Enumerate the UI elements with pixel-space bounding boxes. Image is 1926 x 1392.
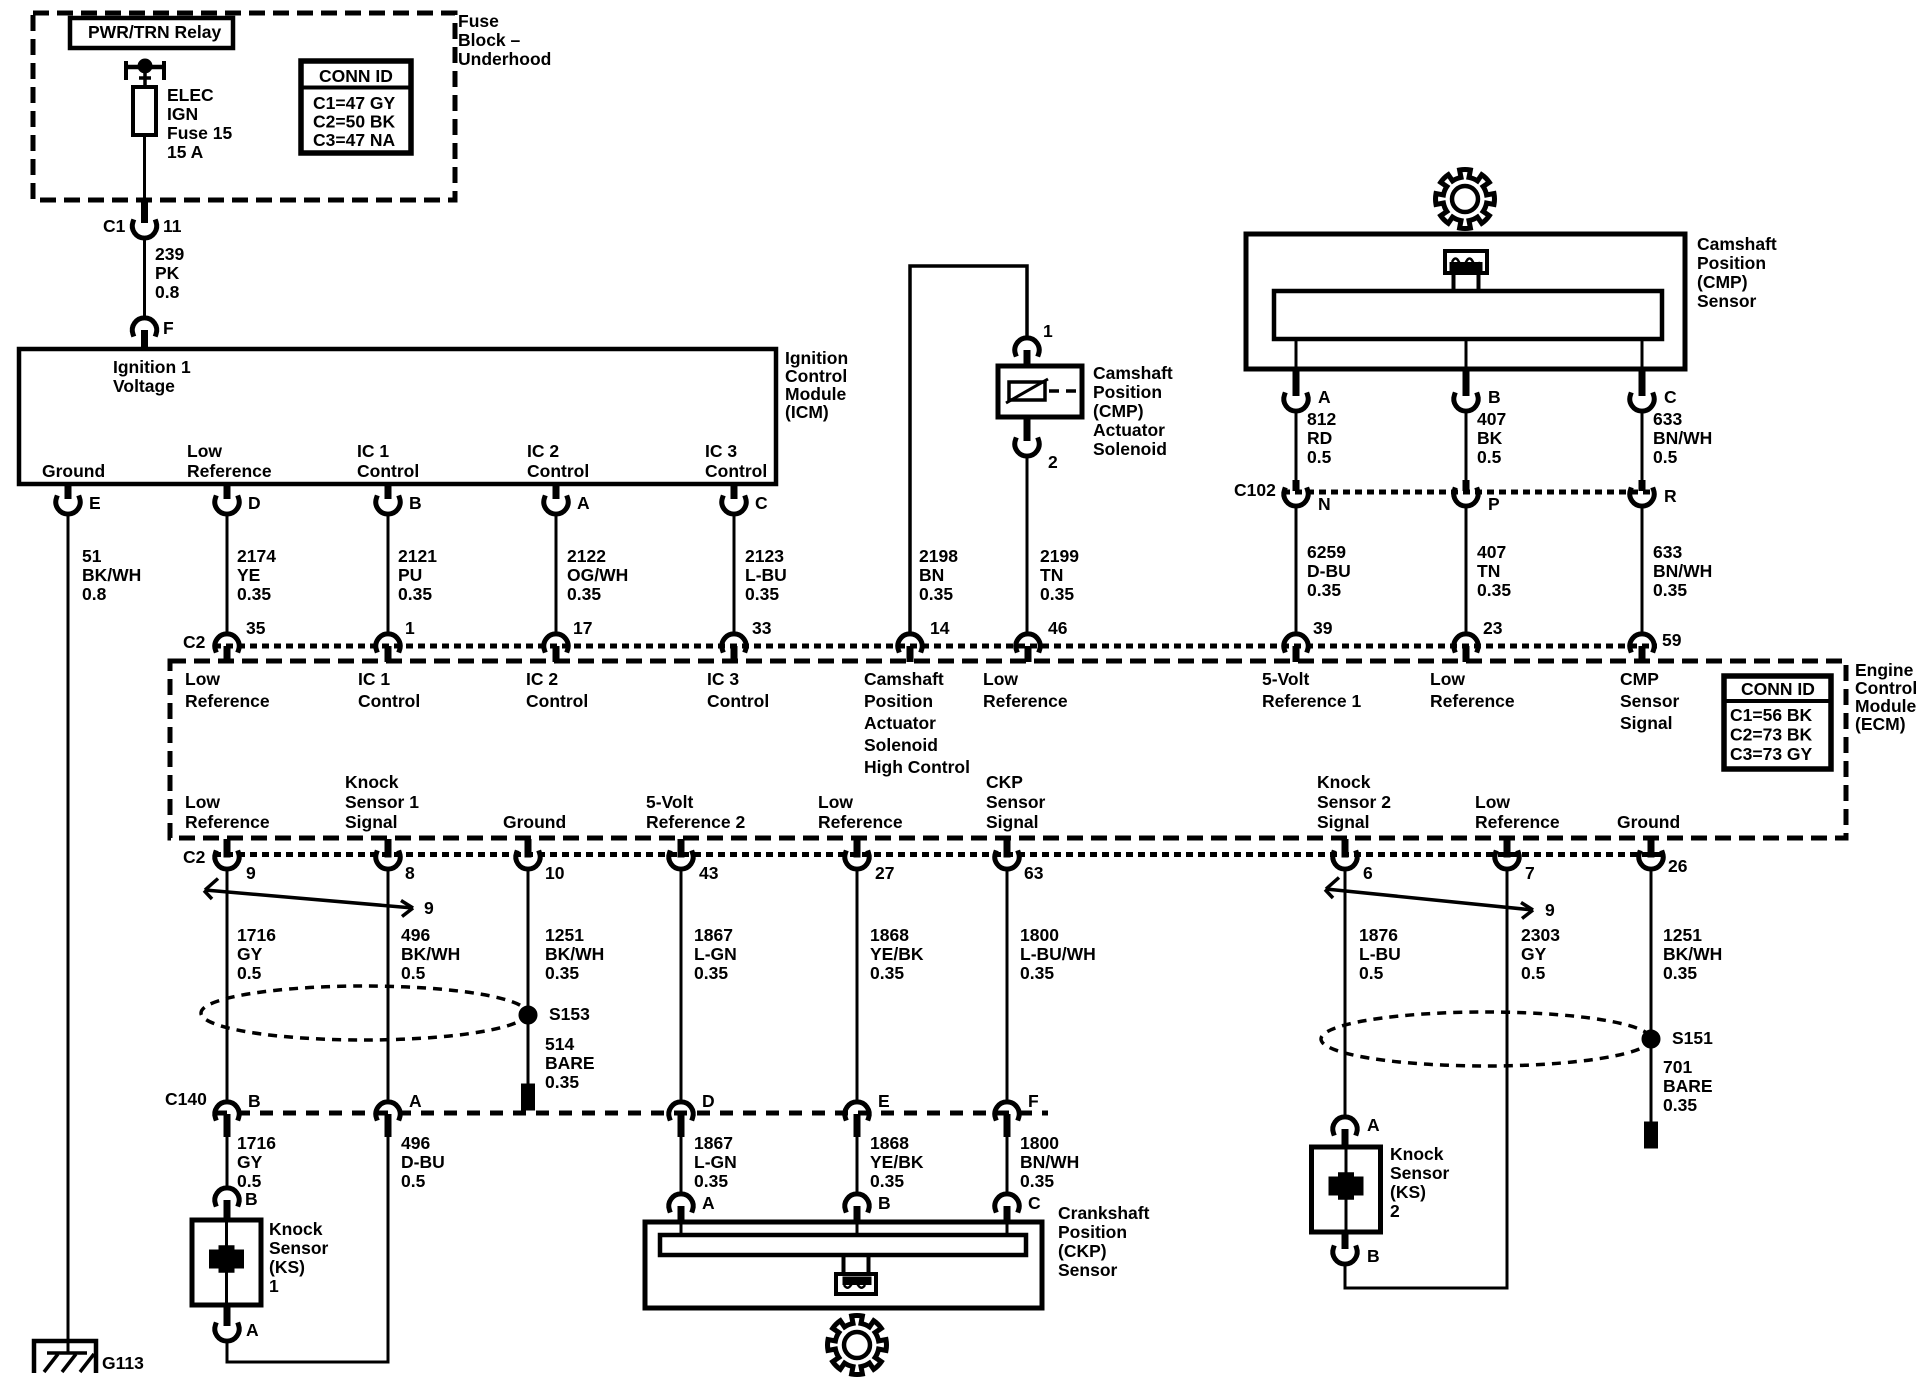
solenoid coil symbol — [1006, 379, 1078, 403]
label ECM Ground b2 — [1617, 812, 1680, 832]
shield ellipse left — [201, 986, 527, 1040]
twisted pair arrow right (to pin 9) — [1325, 878, 1555, 920]
svg-text:BN/WH: BN/WH — [1653, 428, 1712, 448]
svg-text:Signal: Signal — [1317, 812, 1370, 832]
svg-text:YE/BK: YE/BK — [870, 944, 924, 964]
svg-text:Reference: Reference — [187, 461, 272, 481]
svg-text:N: N — [1318, 494, 1331, 514]
label ECM CMP Actuator Solenoid High Control — [864, 669, 970, 777]
C2 upper pin 14 — [898, 618, 950, 662]
label ECM Low Reference b3 — [1475, 792, 1560, 832]
label ECM Low Reference 1 — [185, 669, 270, 711]
svg-text:CMP: CMP — [1620, 669, 1659, 689]
svg-text:PK: PK — [155, 263, 180, 283]
svg-text:GY: GY — [237, 1152, 263, 1172]
svg-text:0.5: 0.5 — [1653, 447, 1678, 467]
svg-text:51: 51 — [82, 546, 102, 566]
wire 812 RD 0.5 — [1296, 409, 1336, 480]
connector C102 pin N — [1284, 480, 1331, 514]
svg-text:Control: Control — [358, 691, 420, 711]
svg-text:ELEC: ELEC — [167, 85, 214, 105]
CMP pin A — [1284, 369, 1331, 411]
svg-text:Signal: Signal — [986, 812, 1039, 832]
svg-text:A: A — [409, 1091, 422, 1111]
svg-text:IC 1: IC 1 — [358, 669, 390, 689]
svg-text:812: 812 — [1307, 409, 1336, 429]
wire inside CKP box — [856, 1222, 859, 1235]
shield ellipse right — [1321, 1012, 1651, 1066]
wire 2199 TN 0.35 — [1027, 457, 1079, 634]
svg-text:2: 2 — [1390, 1201, 1400, 1221]
C2 lower pin 43 — [669, 839, 719, 883]
svg-text:2303: 2303 — [1521, 925, 1560, 945]
svg-text:Control: Control — [357, 461, 419, 481]
sensor Knock Sensor KS 2 box — [1312, 1147, 1381, 1232]
label ICM IC 1 Control — [357, 441, 419, 481]
svg-text:Control: Control — [705, 461, 767, 481]
svg-text:10: 10 — [545, 863, 565, 883]
connector C140 line — [165, 1089, 1048, 1113]
svg-text:F: F — [163, 318, 174, 338]
wire 51 BK/WH 0.8 — [68, 515, 141, 1354]
svg-text:0.35: 0.35 — [1663, 1095, 1697, 1115]
svg-text:0.8: 0.8 — [82, 584, 107, 604]
wire 496 BK/WH 0.5 — [388, 870, 460, 1102]
sensor CKP inner element — [660, 1235, 1026, 1255]
svg-text:B: B — [245, 1189, 258, 1209]
CKP pin C — [995, 1193, 1041, 1222]
C2 upper pin 39 — [1284, 618, 1333, 662]
svg-text:Sensor: Sensor — [1058, 1260, 1118, 1280]
svg-text:D-BU: D-BU — [1307, 561, 1351, 581]
C2 lower pin 63 — [995, 839, 1044, 883]
svg-text:Reference: Reference — [818, 812, 903, 832]
label ECM IC 3 Control — [707, 669, 769, 711]
svg-text:YE: YE — [237, 565, 260, 585]
svg-text:BARE: BARE — [1663, 1076, 1713, 1096]
C2 lower pin 7 — [1495, 839, 1535, 883]
svg-text:IC 2: IC 2 — [527, 441, 559, 461]
svg-text:Module: Module — [1855, 696, 1917, 716]
relay contact symbol — [124, 61, 166, 87]
C2 upper pin 1 — [376, 618, 415, 662]
svg-text:A: A — [1367, 1115, 1380, 1135]
svg-text:0.35: 0.35 — [694, 1171, 728, 1191]
wire inside CMP box — [1465, 339, 1468, 369]
svg-text:0.8: 0.8 — [155, 282, 180, 302]
svg-text:Position: Position — [1093, 382, 1162, 402]
conn id table (fuse block) — [301, 61, 411, 153]
C2 lower pin 6 — [1333, 839, 1373, 883]
svg-text:1: 1 — [269, 1276, 279, 1296]
svg-text:Actuator: Actuator — [1093, 420, 1165, 440]
svg-text:C2: C2 — [183, 632, 206, 652]
svg-text:BARE: BARE — [545, 1053, 595, 1073]
svg-text:1716: 1716 — [237, 925, 276, 945]
svg-text:E: E — [878, 1091, 890, 1111]
CMP pin B — [1454, 369, 1501, 411]
svg-text:(CMP): (CMP) — [1697, 272, 1748, 292]
svg-text:Sensor 2: Sensor 2 — [1317, 792, 1391, 812]
svg-text:2121: 2121 — [398, 546, 437, 566]
svg-text:IGN: IGN — [167, 104, 198, 124]
svg-text:9: 9 — [246, 863, 256, 883]
svg-text:Low: Low — [1475, 792, 1510, 812]
solenoid pin 1 — [1015, 321, 1053, 366]
svg-text:L-BU: L-BU — [1359, 944, 1401, 964]
label ECM Ground b1 — [503, 812, 566, 832]
C2 upper pin 46 — [1016, 618, 1068, 662]
svg-text:D: D — [248, 493, 261, 513]
svg-text:Knock: Knock — [269, 1219, 323, 1239]
svg-text:0.35: 0.35 — [919, 584, 953, 604]
C2 upper pin 35 — [215, 618, 266, 662]
svg-text:Reference: Reference — [983, 691, 1068, 711]
svg-text:5-Volt: 5-Volt — [1262, 669, 1309, 689]
splice S153 — [521, 1004, 590, 1024]
label ELEC IGN Fuse 15 15 A — [167, 85, 232, 162]
svg-text:0.5: 0.5 — [1359, 963, 1384, 983]
connector C1 pin 11 — [103, 200, 182, 238]
svg-text:B: B — [248, 1091, 261, 1111]
wire 407 TN 0.35 — [1466, 507, 1511, 634]
svg-text:Fuse 15: Fuse 15 — [167, 123, 232, 143]
connector C2 line (ECM upper) — [183, 632, 1657, 652]
svg-text:Control: Control — [526, 691, 588, 711]
sensor CKP outer box — [645, 1222, 1042, 1308]
connector C102 pin P — [1454, 480, 1500, 514]
KS2 pin A — [1333, 1115, 1380, 1147]
svg-text:23: 23 — [1483, 618, 1503, 638]
svg-text:0.35: 0.35 — [1020, 963, 1054, 983]
svg-text:(ICM): (ICM) — [785, 402, 829, 422]
svg-text:Sensor: Sensor — [1390, 1163, 1450, 1183]
svg-text:8: 8 — [405, 863, 415, 883]
wire 6259 D-BU 0.35 — [1296, 507, 1351, 634]
sensor Knock Sensor KS 1 box — [192, 1220, 261, 1305]
label Knock Sensor (KS) 2 — [1390, 1144, 1450, 1221]
svg-text:A: A — [246, 1320, 259, 1340]
svg-text:Reference: Reference — [185, 812, 270, 832]
svg-text:Signal: Signal — [345, 812, 398, 832]
svg-text:E: E — [89, 493, 101, 513]
svg-text:OG/WH: OG/WH — [567, 565, 628, 585]
svg-text:39: 39 — [1313, 618, 1333, 638]
fuse ELEC IGN Fuse 15 — [133, 87, 156, 200]
svg-text:Actuator: Actuator — [864, 713, 936, 733]
svg-text:A: A — [577, 493, 590, 513]
svg-text:Solenoid: Solenoid — [1093, 439, 1167, 459]
svg-text:33: 33 — [752, 618, 772, 638]
svg-text:Reference: Reference — [1475, 812, 1560, 832]
svg-text:D: D — [702, 1091, 715, 1111]
svg-text:RD: RD — [1307, 428, 1332, 448]
svg-text:C2: C2 — [183, 847, 206, 867]
label ECM Knock Sensor 1 Signal — [345, 772, 419, 832]
svg-text:1716: 1716 — [237, 1133, 276, 1153]
svg-text:Reference 1: Reference 1 — [1262, 691, 1361, 711]
CKP pin B — [845, 1193, 891, 1222]
svg-text:C1=47 GY: C1=47 GY — [313, 93, 396, 113]
svg-text:633: 633 — [1653, 542, 1682, 562]
svg-text:Underhood: Underhood — [458, 49, 551, 69]
svg-text:407: 407 — [1477, 409, 1506, 429]
svg-text:1876: 1876 — [1359, 925, 1398, 945]
gear icon (camshaft) — [1436, 170, 1495, 229]
KS2 pin B — [1333, 1232, 1380, 1266]
svg-text:GY: GY — [237, 944, 263, 964]
svg-text:1251: 1251 — [545, 925, 584, 945]
svg-text:1800: 1800 — [1020, 1133, 1059, 1153]
svg-text:P: P — [1488, 494, 1500, 514]
svg-text:Low: Low — [185, 669, 220, 689]
svg-text:0.35: 0.35 — [745, 584, 779, 604]
svg-text:BN/WH: BN/WH — [1020, 1152, 1079, 1172]
label ICM IC 3 Control — [705, 441, 767, 481]
svg-text:0.5: 0.5 — [1477, 447, 1502, 467]
wire 1716 GY 0.5 upper — [227, 870, 276, 1102]
svg-text:407: 407 — [1477, 542, 1506, 562]
svg-text:496: 496 — [401, 1133, 430, 1153]
svg-text:59: 59 — [1662, 630, 1682, 650]
svg-text:Ignition: Ignition — [785, 348, 848, 368]
svg-text:Engine: Engine — [1855, 660, 1914, 680]
svg-text:1: 1 — [405, 618, 415, 638]
svg-text:C: C — [755, 493, 768, 513]
KS1 pin B — [215, 1188, 258, 1220]
svg-text:Signal: Signal — [1620, 713, 1673, 733]
C2 upper pin 33 — [722, 618, 772, 662]
connector C140 pin D — [669, 1091, 715, 1137]
label Camshaft Position (CMP) Actuator Solenoid — [1093, 363, 1173, 459]
wire 2122 OG/WH 0.35 — [556, 515, 628, 634]
relay PWR/TRN Relay box — [70, 18, 233, 48]
sensor CKP integral connector — [836, 1255, 876, 1294]
svg-text:2: 2 — [1048, 452, 1058, 472]
ICM pin A — [544, 484, 590, 514]
svg-text:0.35: 0.35 — [545, 1072, 579, 1092]
svg-text:1867: 1867 — [694, 925, 733, 945]
svg-text:Reference 2: Reference 2 — [646, 812, 745, 832]
svg-text:YE/BK: YE/BK — [870, 1152, 924, 1172]
svg-text:63: 63 — [1024, 863, 1044, 883]
svg-text:GY: GY — [1521, 944, 1547, 964]
svg-text:BK: BK — [1477, 428, 1503, 448]
connector C140 pin B — [215, 1091, 261, 1137]
svg-text:B: B — [409, 493, 422, 513]
label ECM Low Reference b1 — [185, 792, 270, 832]
wire 1251 BK/WH 0.35 right — [1651, 870, 1722, 1047]
label ECM Knock Sensor 2 Signal — [1317, 772, 1391, 832]
svg-text:G113: G113 — [102, 1353, 144, 1373]
wire KS2-B to pin 7 jumper — [1345, 1265, 1507, 1289]
svg-text:1251: 1251 — [1663, 925, 1702, 945]
svg-text:Knock: Knock — [345, 772, 399, 792]
svg-text:A: A — [1318, 387, 1331, 407]
svg-text:1: 1 — [1043, 321, 1053, 341]
wire 496 D-BU 0.5 — [388, 1133, 445, 1364]
svg-text:46: 46 — [1048, 618, 1068, 638]
svg-text:C1: C1 — [103, 216, 126, 236]
svg-text:PWR/TRN Relay: PWR/TRN Relay — [88, 22, 221, 42]
svg-text:R: R — [1664, 486, 1677, 506]
svg-text:17: 17 — [573, 618, 592, 638]
svg-text:(CMP): (CMP) — [1093, 401, 1144, 421]
conn id table (ECM) — [1724, 676, 1831, 769]
svg-text:(ECM): (ECM) — [1855, 714, 1906, 734]
label ECM CMP Sensor Signal — [1620, 669, 1680, 733]
connector C140 pin F — [995, 1091, 1039, 1137]
svg-text:633: 633 — [1653, 409, 1682, 429]
svg-text:0.5: 0.5 — [401, 963, 426, 983]
ICM pin D — [215, 484, 261, 514]
svg-text:0.5: 0.5 — [1307, 447, 1332, 467]
wire 633 BN/WH 0.35 lower — [1642, 507, 1712, 634]
svg-text:Reference: Reference — [185, 691, 270, 711]
svg-text:Camshaft: Camshaft — [1093, 363, 1173, 383]
svg-text:1800: 1800 — [1020, 925, 1059, 945]
wire 1867 L-GN 0.35 upper — [681, 870, 737, 1102]
svg-text:Position: Position — [1058, 1222, 1127, 1242]
label ECM Low Reference 2 — [983, 669, 1068, 711]
svg-text:Fuse: Fuse — [458, 11, 499, 31]
CKP pin A — [669, 1193, 715, 1222]
svg-text:0.35: 0.35 — [1307, 580, 1341, 600]
svg-text:IC 1: IC 1 — [357, 441, 389, 461]
svg-text:Low: Low — [187, 441, 222, 461]
wire inside CMP box — [1295, 339, 1298, 369]
C2 upper pin 59 — [1630, 630, 1682, 662]
wire inside CMP box — [1641, 339, 1644, 369]
svg-text:1868: 1868 — [870, 925, 909, 945]
wire 407 BK 0.5 — [1466, 409, 1506, 480]
connector C2 line (ECM lower) — [183, 847, 1666, 867]
splice S151 — [1644, 1028, 1713, 1048]
svg-text:(KS): (KS) — [269, 1257, 305, 1277]
wire 2174 YE 0.35 — [227, 515, 276, 634]
svg-text:0.35: 0.35 — [1020, 1171, 1054, 1191]
ICM pin B — [376, 484, 422, 514]
svg-text:Crankshaft: Crankshaft — [1058, 1203, 1150, 1223]
svg-text:14: 14 — [930, 618, 950, 638]
svg-text:TN: TN — [1477, 561, 1500, 581]
label Ignition Control Module (ICM) — [785, 348, 848, 422]
label Crankshaft Position (CKP) Sensor — [1058, 1203, 1150, 1280]
C2 lower pin 27 — [845, 839, 895, 883]
svg-text:Control: Control — [707, 691, 769, 711]
svg-text:BK/WH: BK/WH — [1663, 944, 1722, 964]
wire 2123 L-BU 0.35 — [734, 515, 787, 634]
svg-text:TN: TN — [1040, 565, 1063, 585]
svg-text:Position: Position — [864, 691, 933, 711]
svg-text:C3=47 NA: C3=47 NA — [313, 130, 396, 150]
svg-text:0.35: 0.35 — [870, 963, 904, 983]
label ECM IC 2 Control — [526, 669, 588, 711]
gear icon (crankshaft) — [828, 1316, 887, 1375]
svg-text:15 A: 15 A — [167, 142, 204, 162]
label ICM Low Reference — [187, 441, 272, 481]
fuse block - underhood (dashed box) — [33, 13, 455, 200]
label Fuse Block - Underhood — [458, 11, 551, 69]
svg-text:Module: Module — [785, 384, 847, 404]
svg-text:(KS): (KS) — [1390, 1182, 1426, 1202]
svg-text:2122: 2122 — [567, 546, 606, 566]
label ECM CKP Sensor Signal — [986, 772, 1046, 832]
svg-text:C3=73 GY: C3=73 GY — [1730, 744, 1813, 764]
ICM pin E — [56, 484, 101, 514]
svg-text:High Control: High Control — [864, 757, 970, 777]
svg-text:BK/WH: BK/WH — [82, 565, 141, 585]
label Engine Control Module (ECM) — [1855, 660, 1917, 734]
wire 2303 GY 0.5 — [1507, 870, 1560, 1290]
svg-text:0.35: 0.35 — [694, 963, 728, 983]
svg-text:Ignition 1: Ignition 1 — [113, 357, 191, 377]
svg-text:L-BU: L-BU — [745, 565, 787, 585]
svg-text:35: 35 — [246, 618, 266, 638]
svg-text:S153: S153 — [549, 1004, 590, 1024]
svg-text:Solenoid: Solenoid — [864, 735, 938, 755]
svg-text:Sensor: Sensor — [1620, 691, 1680, 711]
svg-text:C: C — [1664, 387, 1677, 407]
svg-text:27: 27 — [875, 863, 894, 883]
label ECM IC 1 Control — [358, 669, 420, 711]
C2 upper pin 17 — [544, 618, 593, 662]
connector C140 pin A — [376, 1091, 422, 1137]
svg-text:Control: Control — [527, 461, 589, 481]
svg-text:Position: Position — [1697, 253, 1766, 273]
svg-text:Low: Low — [185, 792, 220, 812]
svg-text:Knock: Knock — [1390, 1144, 1444, 1164]
svg-text:2174: 2174 — [237, 546, 276, 566]
svg-text:Knock: Knock — [1317, 772, 1371, 792]
wire 2121 PU 0.35 — [388, 515, 437, 634]
wire 1868 YE/BK 0.35 upper — [857, 870, 924, 1102]
svg-text:Low: Low — [1430, 669, 1465, 689]
svg-text:BK/WH: BK/WH — [401, 944, 460, 964]
svg-text:Sensor: Sensor — [269, 1238, 329, 1258]
ICM pin C — [722, 484, 768, 514]
label ECM Low Reference 3 — [1430, 669, 1515, 711]
sensor CMP integral connector — [1445, 251, 1487, 291]
svg-text:0.35: 0.35 — [870, 1171, 904, 1191]
svg-text:1867: 1867 — [694, 1133, 733, 1153]
svg-text:Ground: Ground — [42, 461, 105, 481]
svg-text:A: A — [702, 1193, 715, 1213]
svg-text:9: 9 — [424, 898, 434, 918]
svg-text:C140: C140 — [165, 1089, 207, 1109]
label ICM Ground — [42, 461, 105, 481]
svg-text:0.5: 0.5 — [237, 963, 262, 983]
ground G113 — [34, 1341, 144, 1373]
svg-text:11: 11 — [163, 216, 182, 236]
solenoid pin 2 — [1015, 417, 1058, 472]
svg-text:0.5: 0.5 — [237, 1171, 262, 1191]
label ECM 5-Volt Reference 1 — [1262, 669, 1361, 711]
svg-text:IC 2: IC 2 — [526, 669, 558, 689]
wire 701 BARE 0.35 — [1647, 1039, 1713, 1146]
svg-text:L-BU/WH: L-BU/WH — [1020, 944, 1096, 964]
svg-text:C102: C102 — [1234, 480, 1276, 500]
wire inside CKP box — [680, 1222, 683, 1235]
wire KS1-A to C140-A jumper — [227, 1342, 388, 1363]
svg-text:L-GN: L-GN — [694, 1152, 737, 1172]
svg-text:0.35: 0.35 — [237, 584, 271, 604]
wire 1800 BN/WH 0.35 — [1007, 1133, 1079, 1194]
svg-text:Control: Control — [1855, 678, 1917, 698]
svg-text:IC 3: IC 3 — [705, 441, 737, 461]
svg-text:0.35: 0.35 — [545, 963, 579, 983]
svg-text:26: 26 — [1668, 856, 1688, 876]
